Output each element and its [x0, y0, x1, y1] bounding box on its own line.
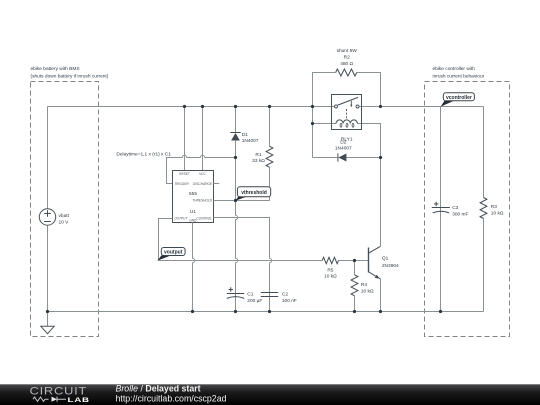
resistor R1 33k vertical [266, 146, 273, 167]
ground [41, 326, 54, 333]
svg-text:DISCHARGE: DISCHARGE [193, 182, 213, 186]
svg-text:Delaytime=1,1 x (r1) x C1: Delaytime=1,1 x (r1) x C1 [116, 151, 171, 157]
svg-text:1N4007: 1N4007 [242, 138, 259, 144]
wire node A column (D1/threshold/C1) [236, 107, 238, 312]
resistor R5 10k horizontal [322, 257, 338, 263]
junction rail-R1 [268, 105, 271, 108]
wire C3 column [440, 107, 442, 312]
wire coil left column [312, 107, 314, 158]
svg-text:480 Ω: 480 Ω [340, 61, 353, 67]
svg-text:555: 555 [189, 191, 197, 197]
junction rail-VCC [201, 105, 204, 108]
junction R4-rail [353, 310, 356, 313]
voltage source V1 vbatt [39, 209, 55, 225]
wire control to C2 [214, 218, 272, 312]
controller dashed box [425, 82, 510, 337]
svg-text:TRIGGER: TRIGGER [174, 182, 189, 186]
junction base-R4 [353, 259, 356, 262]
svg-text:R5: R5 [327, 267, 333, 273]
junction D2-collector [379, 156, 382, 159]
wire bottom rail [48, 311, 484, 313]
relay coil [336, 120, 357, 124]
svg-text:vcontroller: vcontroller [446, 95, 472, 101]
wire D2 leads [313, 157, 381, 159]
node flag vcontroller [441, 101, 454, 107]
junction rail-shunt-right [379, 105, 382, 108]
svg-text:OUTPUT: OUTPUT [174, 217, 188, 221]
logo CIRCUIT [30, 384, 88, 397]
wire collector vertical [380, 158, 382, 247]
wire ground stub [47, 312, 49, 327]
svg-text:inrush current behaviour: inrush current behaviour [433, 74, 485, 80]
svg-text:LAB: LAB [68, 397, 90, 404]
junction C3-rail [439, 310, 442, 313]
wire coil left horizontal [313, 123, 337, 125]
svg-text:D1: D1 [242, 132, 248, 138]
svg-text:10 kΩ: 10 kΩ [324, 274, 337, 280]
wire output to base rail [159, 219, 369, 261]
wire discharge stub [214, 183, 220, 185]
capacitor C1 200uF [227, 294, 244, 299]
svg-text:VCC: VCC [199, 172, 206, 176]
svg-text:10 kΩ: 10 kΩ [361, 288, 374, 294]
junction rail-coil-left [311, 105, 314, 108]
svg-text:33 kΩ: 33 kΩ [252, 158, 265, 164]
wire RESET pin vertical [184, 107, 186, 171]
svg-text:10 kΩ: 10 kΩ [491, 210, 504, 216]
wire R3 leads [483, 107, 485, 312]
resistor R2 480 shunt [336, 69, 357, 76]
svg-text:2N3904: 2N3904 [382, 263, 399, 269]
wire coil right to collector column [357, 124, 380, 158]
node flag voutput [157, 255, 171, 260]
wire R4 leads [354, 261, 356, 312]
svg-text:300 mF: 300 mF [452, 211, 468, 217]
svg-text:U1: U1 [190, 209, 196, 215]
svg-text:shunt 5W: shunt 5W [337, 48, 358, 54]
junction rail-D1 [234, 105, 237, 108]
wire emitter vertical [380, 279, 382, 312]
svg-text:Q1: Q1 [382, 256, 389, 262]
junction rail-RESET [183, 105, 186, 108]
wire top rail left [48, 106, 335, 108]
wire GND pin vertical [193, 223, 195, 312]
svg-text:C3: C3 [452, 205, 458, 211]
svg-text:C1: C1 [247, 291, 253, 297]
svg-text:100 nF: 100 nF [282, 298, 297, 304]
battery BMS dashed box [31, 82, 99, 337]
junction threshold-node [234, 199, 237, 202]
diode D1 1N4007 [230, 132, 240, 134]
wire R1 leads [269, 107, 271, 201]
wire battery vertical top [47, 107, 49, 209]
svg-text:ebike controller with: ebike controller with [433, 66, 476, 72]
junction ground-rail [46, 310, 49, 313]
wire shunt branch [313, 73, 381, 107]
svg-text:R3: R3 [491, 204, 497, 210]
svg-text:R1: R1 [255, 152, 261, 158]
wire top rail right [360, 106, 484, 108]
svg-text:10 V: 10 V [59, 219, 70, 225]
logo resistor+diode [33, 397, 49, 401]
timer U1 555 box [173, 171, 214, 223]
wire VCC pin vertical [202, 107, 204, 171]
relay RLY1 [332, 95, 362, 130]
svg-text:Brolle / Delayed start: Brolle / Delayed start [116, 383, 201, 393]
svg-text:THRESHOLD: THRESHOLD [192, 199, 212, 203]
junction coil-left [311, 122, 314, 125]
svg-text:ebike battery with BMS: ebike battery with BMS [31, 66, 80, 72]
svg-text:(shuts down battery if inrush: (shuts down battery if inrush current) [31, 74, 109, 80]
svg-text:RESET: RESET [179, 172, 191, 176]
svg-text:200 µF: 200 µF [247, 298, 262, 304]
wire battery vertical bottom [47, 225, 49, 311]
svg-text:http://circuitlab.com/cscp2ad: http://circuitlab.com/cscp2ad [116, 394, 227, 404]
resistor R3 10k vertical [480, 198, 487, 219]
wire threshold [214, 200, 270, 202]
svg-text:R2: R2 [344, 54, 350, 60]
junction trigger-node [234, 156, 237, 159]
svg-text:CONTROL: CONTROL [196, 217, 212, 221]
junction C1-rail [234, 310, 237, 313]
svg-text:1N4007: 1N4007 [335, 145, 352, 151]
svg-text:CIRCUIT: CIRCUIT [30, 384, 88, 397]
capacitor C3 300mF [432, 208, 450, 213]
junction C2-rail [268, 310, 271, 313]
svg-text:vthreshold: vthreshold [241, 190, 267, 196]
diode D2 1N4007 [337, 153, 339, 161]
junction GND-rail [191, 310, 194, 313]
wire trigger with hops [167, 155, 236, 183]
svg-text:R4: R4 [361, 282, 367, 288]
svg-text:C2: C2 [282, 291, 288, 297]
capacitor C2 100nF [261, 293, 278, 297]
svg-text:voutput: voutput [164, 250, 183, 256]
svg-text:D2: D2 [340, 140, 346, 146]
junction emitter-rail [379, 310, 382, 313]
resistor R4 10k vertical [351, 275, 358, 296]
transistor Q1 2N3904 [368, 248, 370, 273]
svg-text:vbatt: vbatt [59, 213, 70, 219]
logo LAB [68, 397, 90, 404]
node flag vthreshold [236, 196, 249, 201]
